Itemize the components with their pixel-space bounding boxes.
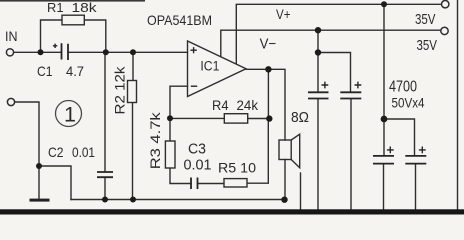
svg-text:R5 10: R5 10: [218, 161, 256, 176]
svg-text:0.01: 0.01: [184, 158, 212, 174]
svg-text:4700: 4700: [389, 79, 417, 96]
svg-text:8Ω: 8Ω: [291, 110, 309, 126]
svg-text:35V: 35V: [417, 38, 438, 54]
svg-text:R4: R4: [212, 97, 229, 113]
svg-text:R1: R1: [47, 0, 64, 15]
svg-text:OPA541BM: OPA541BM: [147, 13, 212, 28]
svg-text:V−: V−: [260, 36, 277, 52]
svg-text:4.7: 4.7: [66, 63, 84, 79]
svg-text:1: 1: [64, 102, 76, 126]
svg-text:IN: IN: [5, 29, 18, 44]
svg-text:IC1: IC1: [200, 59, 219, 74]
svg-text:R2 12k: R2 12k: [113, 66, 128, 114]
svg-text:V+: V+: [276, 7, 291, 22]
svg-text:C3: C3: [188, 142, 206, 158]
svg-text:35V: 35V: [415, 12, 436, 28]
svg-text:R3 4.7k: R3 4.7k: [148, 112, 163, 169]
svg-text:0.01: 0.01: [72, 144, 95, 160]
svg-text:50Vx4: 50Vx4: [392, 95, 425, 111]
svg-text:18k: 18k: [72, 0, 97, 15]
svg-text:C1: C1: [37, 63, 53, 79]
svg-text:C2: C2: [48, 144, 64, 160]
svg-text:24k: 24k: [237, 97, 259, 113]
